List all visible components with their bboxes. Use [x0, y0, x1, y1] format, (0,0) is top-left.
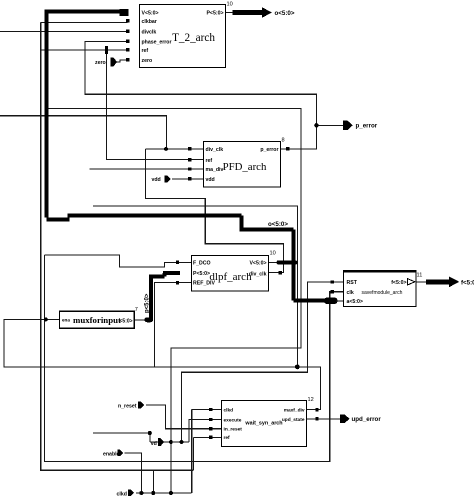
pin squares savef	[331, 280, 334, 293]
wire phase_error row	[85, 41, 317, 149]
thick bus V feedback	[45, 11, 331, 300]
svg-text:PFD_arch: PFD_arch	[223, 161, 267, 173]
wire div_clk dist	[93, 206, 297, 367]
svg-text:p<5:0>: p<5:0>	[145, 293, 151, 313]
svg-text:ref: ref	[142, 48, 149, 54]
svg-text:div_clk: div_clk	[249, 272, 267, 278]
pin squares wait	[209, 408, 319, 439]
svg-text:a<5:0>: a<5:0>	[347, 299, 363, 305]
a5 thin stub	[336, 300, 344, 302]
svg-text:vdd: vdd	[206, 177, 215, 183]
wire L3 row	[0, 116, 166, 149]
svg-text:vdd: vdd	[152, 177, 161, 183]
pin squares PFD	[188, 147, 290, 180]
svg-text:12: 12	[308, 397, 314, 403]
block dlpf_arch	[192, 251, 276, 292]
wire p_error pfd riser (dup)	[315, 94, 317, 149]
wire clkbar row	[41, 22, 128, 24]
svg-text:o<5:0>: o<5:0>	[275, 10, 295, 17]
svg-text:vd: vd	[151, 441, 157, 447]
svg-text:ma_div: ma_div	[206, 167, 224, 173]
svg-text:o<5:0>: o<5:0>	[268, 221, 288, 228]
svg-text:muxforinput: muxforinput	[73, 315, 121, 325]
svg-text:11: 11	[417, 273, 423, 279]
svg-text:in_reset: in_reset	[224, 426, 243, 432]
wire n_reset run	[146, 405, 221, 429]
wire p_error tap	[316, 124, 343, 126]
wire div_clk detour	[145, 149, 283, 273]
wire REF_DIV drop	[155, 283, 191, 367]
f5 bus arrow	[426, 276, 474, 287]
svg-text:7: 7	[135, 307, 138, 313]
svg-text:clkbar: clkbar	[142, 19, 157, 25]
thick bus mux out	[149, 273, 180, 319]
input flag vdd PFD	[152, 176, 171, 184]
svg-text:wait_syn_arch: wait_syn_arch	[244, 421, 282, 427]
wire mux out stub	[134, 319, 147, 321]
wire upd_state out	[307, 418, 341, 420]
input flag vd	[151, 438, 164, 447]
a5 bus cap	[324, 298, 338, 304]
svg-text:p_error: p_error	[356, 123, 378, 130]
svg-text:zero: zero	[95, 60, 106, 66]
wire V5 stub dlpf	[269, 261, 279, 263]
svg-text:clkd: clkd	[224, 408, 234, 414]
wire second left vertical	[45, 255, 344, 461]
svg-text:P<5:0>: P<5:0>	[206, 11, 223, 17]
wire mux loop	[4, 319, 321, 409]
thick bus V5 stub	[279, 260, 296, 264]
wire ma_div row	[89, 168, 203, 170]
svg-text:10: 10	[227, 2, 233, 8]
wire wait ref drop	[193, 437, 221, 470]
svg-text:dlpf_arch: dlpf_arch	[209, 271, 252, 283]
o5 top bus arrow	[120, 7, 295, 18]
block muxforinput	[59, 307, 138, 328]
wire RST loop	[182, 282, 344, 442]
wire ref row T2	[41, 49, 128, 51]
svg-text:ref: ref	[224, 435, 231, 441]
svg-text:clk: clk	[347, 290, 354, 296]
svg-text:V<5:0>: V<5:0>	[142, 11, 159, 17]
mux out blob	[145, 317, 154, 322]
svg-text:T_2_arch: T_2_arch	[172, 32, 215, 44]
pin squares dlpf	[176, 261, 282, 285]
svg-text:execute: execute	[224, 417, 242, 423]
wire clkbar vertical net	[41, 23, 194, 471]
wire ref drop to PFD	[106, 50, 203, 159]
wire clkd riser	[192, 410, 222, 494]
wire enable drop	[125, 453, 142, 493]
wire vdd PFD stub	[172, 178, 203, 180]
svg-text:<5:0>: <5:0>	[120, 319, 133, 325]
wire PFD div_clk row	[145, 148, 203, 150]
svg-text:REF_DIV: REF_DIV	[193, 281, 215, 287]
wire zero stub	[117, 60, 128, 62]
wire bottom clkd row	[136, 492, 192, 494]
upd_error arrow out	[340, 414, 381, 423]
svg-text:n_reset: n_reset	[118, 403, 137, 409]
svg-text:upd_error: upd_error	[352, 416, 382, 423]
wire F_DCO feed	[45, 255, 191, 267]
wire maxf_div out	[307, 409, 321, 411]
svg-text:divclk: divclk	[142, 30, 157, 36]
svg-text:savefmodule_arch: savefmodule_arch	[362, 290, 403, 296]
svg-text:upd_state: upd_state	[282, 417, 305, 423]
svg-text:enable: enable	[103, 451, 120, 457]
wire execute riser	[189, 420, 221, 443]
svg-text:f<5:0>: f<5:0>	[461, 279, 474, 286]
svg-text:phase_error: phase_error	[142, 40, 172, 46]
input flag n_reset	[118, 402, 144, 410]
block T_2_arch	[140, 2, 234, 68]
wire vdd442 row	[150, 441, 189, 443]
svg-text:10: 10	[270, 251, 276, 257]
svg-text:ref: ref	[206, 158, 213, 164]
svg-text:maxf_div: maxf_div	[284, 408, 305, 414]
block savefmodule	[343, 271, 422, 306]
block wait_syn_arch	[222, 397, 314, 447]
input flag enable	[103, 450, 123, 458]
input flag zero	[95, 58, 117, 67]
wire L2 row	[47, 109, 301, 494]
svg-text:p_error: p_error	[260, 147, 278, 153]
input flag clkd bottom	[117, 490, 135, 498]
svg-text:f<5:0>: f<5:0>	[391, 280, 406, 286]
wire divclk input row	[0, 30, 128, 32]
pin squares left T2	[126, 19, 129, 62]
svg-text:V<5:0>: V<5:0>	[249, 260, 266, 266]
P5 pin square dlpf	[176, 271, 180, 275]
wire f5 stub	[416, 281, 426, 283]
p_error arrow out	[343, 121, 378, 130]
svg-text:clkd: clkd	[117, 491, 127, 497]
block PFD_arch	[204, 138, 285, 188]
svg-text:RST: RST	[347, 280, 358, 286]
svg-text:8: 8	[282, 138, 285, 144]
svg-text:zero: zero	[142, 58, 153, 64]
wire stub433	[93, 433, 150, 442]
wire x153 riser	[152, 470, 154, 493]
svg-text:P<5:0>: P<5:0>	[193, 271, 210, 277]
svg-text:div_clk: div_clk	[206, 147, 224, 153]
svg-text:ena: ena	[62, 318, 70, 323]
svg-text:F_DCO: F_DCO	[193, 260, 211, 266]
